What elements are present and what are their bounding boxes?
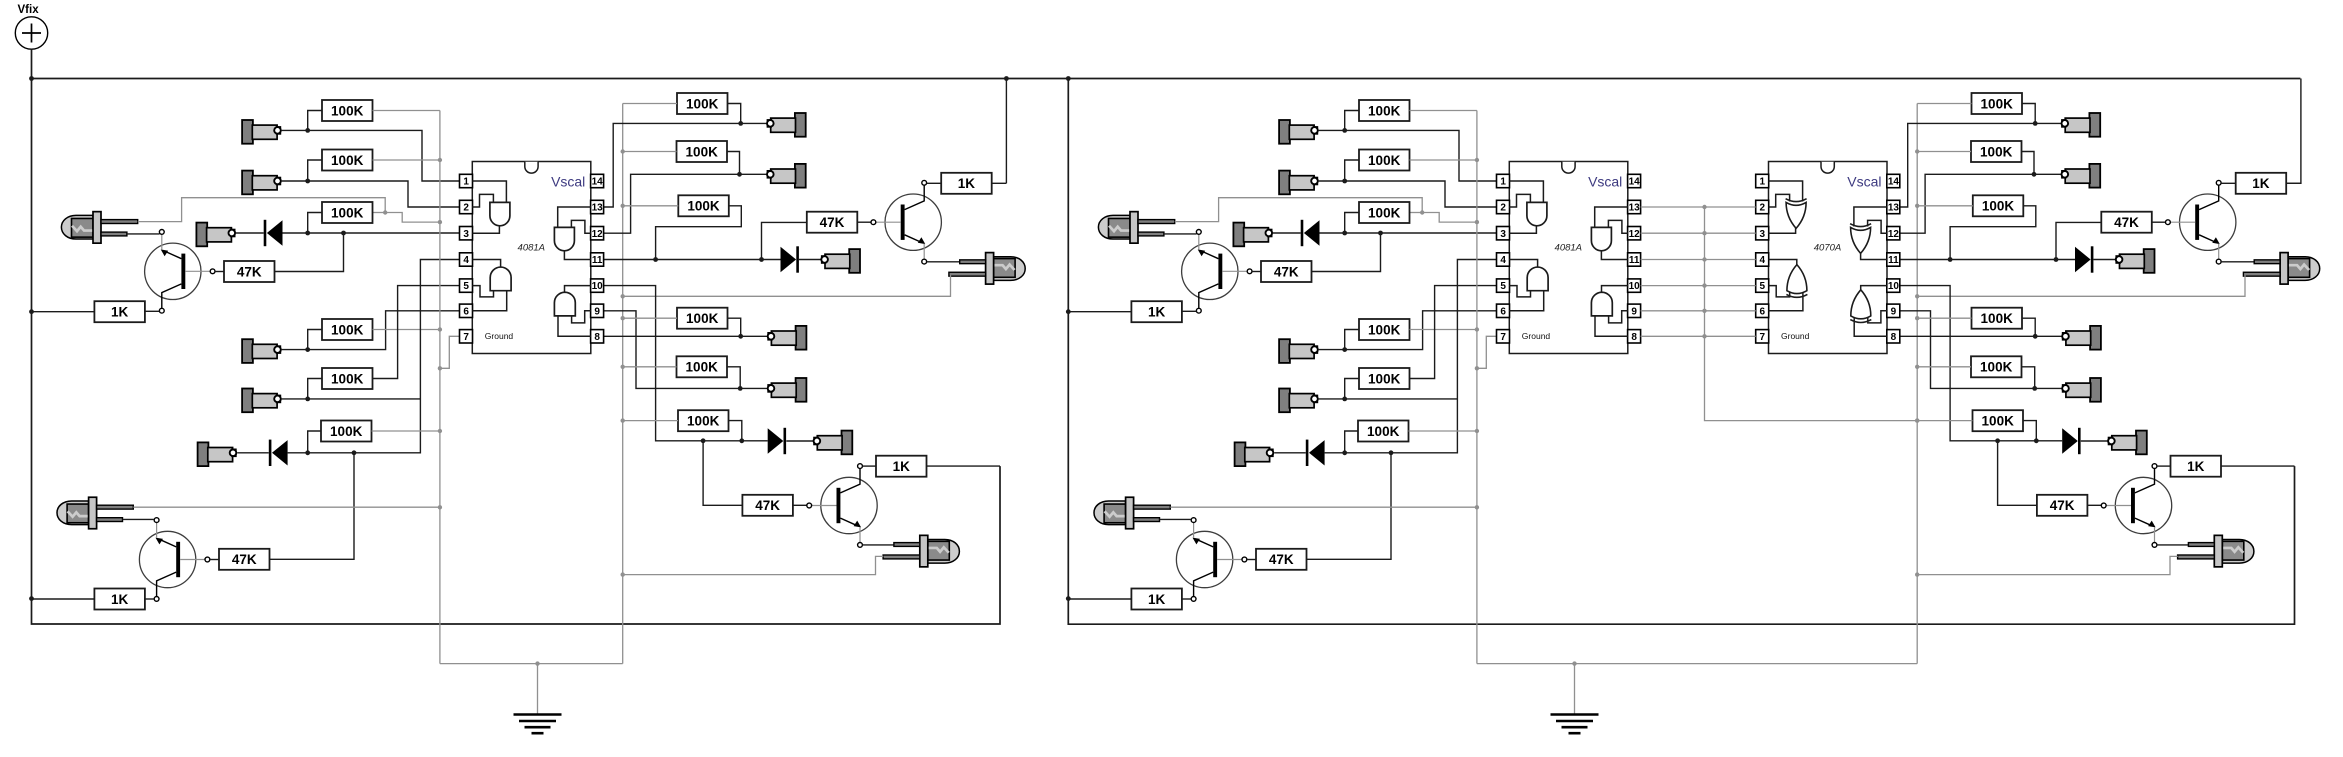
U2 pin 8 xyxy=(1628,330,1641,343)
resistor RR1K2 1K xyxy=(1131,589,1182,610)
wire L1K lower to Q3 collector xyxy=(145,598,154,600)
U1 gate 1 input wires xyxy=(472,181,506,207)
resistor RR3 100K xyxy=(1359,202,1410,223)
junction L ground stem xyxy=(535,661,539,665)
wire LR12 right lead xyxy=(729,421,742,440)
wire LR7 left lead xyxy=(623,103,677,105)
U3 gate 1 input wires xyxy=(1769,181,1803,207)
U3 gate 4 output wire xyxy=(1861,286,1887,293)
sensor LS1 xyxy=(242,120,281,144)
resistor RR1 100K xyxy=(1359,100,1410,121)
U1 pin 12 xyxy=(591,227,604,240)
wire RR1 right lead to ground bus xyxy=(1410,110,1477,112)
wire LLED3 anode to ground bus xyxy=(133,506,440,508)
resistor LR7 100K xyxy=(677,93,728,114)
U2 gate 2 input wires xyxy=(1509,286,1543,311)
wire R sensor5 to pin4 riser xyxy=(1318,398,1457,400)
junction L bus/R4 xyxy=(438,327,442,331)
U3 pin 11 xyxy=(1887,253,1900,266)
svg-text:13: 13 xyxy=(1888,203,1900,214)
wire L1K upper left lead xyxy=(32,311,95,313)
wire RLED4 cathode to ground bus xyxy=(1917,275,2245,297)
U1 gate 2 input wires xyxy=(472,286,506,311)
svg-text:14: 14 xyxy=(1888,177,1900,188)
U3 pin 2 xyxy=(1756,200,1769,213)
sensor RS1 xyxy=(1279,120,1318,144)
junction L sensor5/R5 xyxy=(305,397,310,402)
svg-text:2: 2 xyxy=(463,203,469,214)
wire L D1 to pin3 xyxy=(283,232,460,234)
junction L D4 net/R12 xyxy=(739,438,744,443)
svg-text:2: 2 xyxy=(1500,203,1506,214)
wire LLED2 cathode to ground bus xyxy=(623,556,884,574)
wire R47K to Q2 base xyxy=(2087,504,2101,506)
resistor RR47a 47K xyxy=(1261,261,1312,282)
wire L D3 to sensor9 xyxy=(799,259,821,261)
svg-text:1K: 1K xyxy=(2252,176,2270,191)
junction middle bus row 4 xyxy=(1702,257,1706,261)
junction R pin9 net/R11 xyxy=(2032,386,2037,391)
wire LR2 left lead xyxy=(308,160,322,180)
resistor LR6 100K xyxy=(321,421,372,442)
svg-text:100K: 100K xyxy=(686,311,719,326)
svg-text:1K: 1K xyxy=(958,176,976,191)
junction L D2 net/R6 xyxy=(305,450,310,455)
svg-text:12: 12 xyxy=(1629,229,1641,240)
wire left-block top-right drop xyxy=(1005,79,1007,184)
wire L sensor3 to D1 xyxy=(236,232,264,234)
wire L ground bus B xyxy=(622,104,624,664)
wire RR1 left lead xyxy=(1345,111,1359,130)
U1 pin 4 xyxy=(460,253,473,266)
wire RR10 right lead xyxy=(2022,318,2035,335)
junction L bus/pin7 xyxy=(438,366,442,370)
U1 gate 3 input wires xyxy=(558,207,591,233)
wire LR11 right lead xyxy=(727,367,740,388)
wire R sensor1 to pin1 xyxy=(1318,130,1496,181)
junction R D2 net/47K riser xyxy=(1389,450,1394,455)
junction middle bus row 2 xyxy=(1702,205,1706,209)
junction R busB/R8 xyxy=(1915,149,1919,153)
junction R ground bus/R2 xyxy=(1475,158,1479,162)
wire LR2 right lead xyxy=(373,159,440,161)
sensor LS10 xyxy=(768,326,807,350)
svg-text:Vscal: Vscal xyxy=(1847,174,1881,190)
junction R busB/R12 xyxy=(1915,418,1919,422)
wire RLED1 anode to ground bus xyxy=(1175,198,1423,222)
wire R1K lower to Q3 collector xyxy=(1182,598,1191,600)
resistor LR1K4 1K xyxy=(876,456,927,477)
sensor RS11 xyxy=(2062,378,2101,402)
wire R1K lower left lead xyxy=(1069,598,1132,600)
transistor RQ1 xyxy=(1182,229,1252,313)
wire RQ2T emitter to LED4 xyxy=(2221,261,2254,263)
wire LR12 left lead xyxy=(623,420,678,422)
junction top rail to left-block right 1K xyxy=(1004,76,1009,81)
sensor RS5 xyxy=(1279,389,1318,413)
junction L pin3 net/R3 xyxy=(305,231,310,236)
U1 gate 1 (AND) xyxy=(490,202,510,225)
U3 gate 3 output wire xyxy=(1861,251,1887,260)
U3 pin 7 xyxy=(1756,330,1769,343)
U3 pin 12 xyxy=(1887,227,1900,240)
junction R D4 net/47K drop xyxy=(1995,438,2000,443)
wire inter-IC row 3 xyxy=(1641,232,1756,234)
junction middle bus row 3 xyxy=(1702,231,1706,235)
U2 pin 3 xyxy=(1497,227,1510,240)
svg-text:100K: 100K xyxy=(330,424,363,439)
wire LLED4 cathode to ground bus xyxy=(623,275,951,297)
svg-text:47K: 47K xyxy=(1269,552,1294,567)
wire LR5 right lead to pin5 xyxy=(373,286,460,379)
U3 gate 3 input wires xyxy=(1854,207,1887,233)
wire LR9 right lead to pin11 net xyxy=(656,206,742,259)
svg-text:9: 9 xyxy=(594,306,600,317)
wire RR11 right lead xyxy=(2022,367,2035,388)
diode RD2 xyxy=(1306,440,1325,466)
svg-text:1K: 1K xyxy=(893,459,911,474)
U3 pin 8 xyxy=(1887,330,1900,343)
wire L pin11 net xyxy=(604,259,781,261)
wire Vfix left border and left-block bottom rail xyxy=(32,49,1001,624)
resistor RR8 100K xyxy=(1971,141,2022,162)
wire L47K to Q2 base xyxy=(793,504,807,506)
junction LLED1/R3 gray xyxy=(383,210,387,214)
svg-text:47K: 47K xyxy=(755,498,780,513)
svg-text:4: 4 xyxy=(463,255,469,266)
U3 pin 14 xyxy=(1887,174,1900,187)
svg-text:11: 11 xyxy=(1629,255,1640,266)
wire R pin9 net to sensor11 xyxy=(1900,311,2062,389)
resistor LR5 100K xyxy=(322,368,373,389)
resistor RR47c 47K xyxy=(2101,212,2152,233)
svg-text:100K: 100K xyxy=(687,199,720,214)
sensor LS6 xyxy=(198,442,237,466)
wire LR6 left lead xyxy=(308,431,321,452)
U3 pin 5 xyxy=(1756,279,1769,292)
resistor LR1K3 1K xyxy=(941,173,992,194)
junction R sensor1/100K xyxy=(1342,128,1347,133)
U1 pin 8 xyxy=(591,330,604,343)
junction L ground bus/R2 xyxy=(438,158,442,162)
wire L pin13 to sensor7 xyxy=(604,123,767,207)
svg-text:100K: 100K xyxy=(1368,103,1401,118)
U2 pin 7 xyxy=(1497,330,1510,343)
junction L pin11/R9 xyxy=(653,257,658,262)
U2 gate 3 input wires xyxy=(1595,207,1628,233)
junction L sensor7/R7 xyxy=(738,121,743,126)
resistor LR1K2 1K xyxy=(94,589,144,610)
junction R busB/R11 xyxy=(1915,365,1919,369)
svg-text:11: 11 xyxy=(1888,255,1899,266)
IC U3 4070A body xyxy=(1769,162,1888,354)
sensor LS5 xyxy=(242,389,281,413)
wire R1K right lead to bottom corner xyxy=(2221,465,2295,467)
wire R47K right lead up to pin3 net xyxy=(1312,234,1381,272)
wire R ground bus B xyxy=(1916,104,1918,664)
resistor RR11 100K xyxy=(1971,356,2022,377)
wire LR3 left lead xyxy=(308,213,322,233)
U2 gate 4 (AND) xyxy=(1591,292,1612,316)
resistor RR6 100K xyxy=(1358,421,1409,442)
sensor LS7 xyxy=(767,113,806,137)
wire LQ2T emitter to LED4 xyxy=(927,261,960,263)
wire RR5 left lead xyxy=(1345,379,1359,398)
junction R bus/pin7 xyxy=(1475,366,1479,370)
svg-text:4081A: 4081A xyxy=(1555,243,1582,254)
svg-text:1K: 1K xyxy=(111,592,129,607)
svg-text:6: 6 xyxy=(1760,306,1766,317)
svg-text:100K: 100K xyxy=(1368,371,1401,386)
junction L D2 net/47K riser xyxy=(352,450,357,455)
ground symbol R xyxy=(1551,715,1599,734)
svg-text:100K: 100K xyxy=(686,96,719,111)
junction R pin11/47K xyxy=(2054,257,2059,262)
svg-text:100K: 100K xyxy=(331,153,364,168)
junction L busB/LED4 xyxy=(621,294,625,298)
wire LLED1 anode to ground bus xyxy=(138,198,386,222)
U1 gate 4 output wire xyxy=(565,286,591,293)
wire L D4 to sensor12 xyxy=(786,440,813,442)
wire L1K right lead to bottom corner xyxy=(927,465,1001,467)
svg-text:Ground: Ground xyxy=(1781,331,1810,341)
resistor RR1K1 1K xyxy=(1131,301,1182,322)
junction R bus/LED3 xyxy=(1475,505,1479,509)
wire LR8 left lead xyxy=(623,151,677,153)
wire inter-IC row 2 xyxy=(1641,206,1756,208)
svg-text:12: 12 xyxy=(1888,229,1900,240)
U1 gate 3 (AND) xyxy=(554,227,574,250)
junction R D4 net/R12 xyxy=(2034,438,2039,443)
svg-text:13: 13 xyxy=(1629,203,1641,214)
wire L1K to Q2T collector xyxy=(927,182,942,184)
svg-text:1: 1 xyxy=(463,177,469,188)
wire RR3 right lead xyxy=(1410,212,1423,214)
svg-text:1: 1 xyxy=(1500,177,1506,188)
svg-text:9: 9 xyxy=(1631,306,1637,317)
svg-text:3: 3 xyxy=(1500,229,1506,240)
svg-text:47K: 47K xyxy=(1274,264,1299,279)
wire R47K to Q2T base xyxy=(2152,221,2166,223)
junction middle bus row 5 xyxy=(1702,283,1706,287)
U2 gate 2 (AND) xyxy=(1527,267,1548,291)
U2 gate 4 input wires xyxy=(1595,311,1628,337)
wire RLED3 anode to ground bus xyxy=(1170,506,1477,508)
diode RD1 xyxy=(1301,220,1320,246)
wire RR10 left lead xyxy=(1917,317,1971,319)
junction R busB/LED2 xyxy=(1915,572,1919,576)
wire RR12 right lead xyxy=(2023,421,2036,440)
LED RLED2 xyxy=(2178,535,2254,567)
wire R D2 net riser to pin4 xyxy=(1325,260,1497,453)
junction L bus/LED1 net xyxy=(438,220,442,224)
wire RR2 left lead xyxy=(1345,160,1359,180)
wire L1K upper to Q1 collector xyxy=(145,310,160,312)
wire RR6 left lead xyxy=(1345,431,1358,452)
sensor RS10 xyxy=(2062,326,2101,350)
junction middle bus row 6 xyxy=(1702,309,1706,313)
svg-text:100K: 100K xyxy=(686,144,719,159)
svg-text:5: 5 xyxy=(1760,281,1766,292)
resistor LR12 100K xyxy=(678,410,729,431)
diode RD3 xyxy=(2075,246,2093,272)
wire L ground bus A xyxy=(439,111,441,664)
U1 gate 2 output wire xyxy=(472,260,500,268)
resistor LR1K1 1K xyxy=(94,301,144,322)
svg-text:7: 7 xyxy=(1500,332,1506,343)
resistor RR5 100K xyxy=(1359,368,1410,389)
junction R busB/R9 xyxy=(1915,204,1919,208)
resistor LR47a 47K xyxy=(224,261,275,282)
svg-text:8: 8 xyxy=(1891,332,1897,343)
diode LD1 xyxy=(264,220,283,246)
svg-text:4: 4 xyxy=(1760,255,1766,266)
wire L47K lower to Q3 base xyxy=(210,559,219,561)
junction R sensor5/R5 xyxy=(1342,397,1347,402)
svg-text:6: 6 xyxy=(1500,306,1506,317)
svg-text:100K: 100K xyxy=(1368,205,1401,220)
wire RQ2 emitter to LED2 xyxy=(2157,544,2189,546)
junction R bus/R4 xyxy=(1475,327,1479,331)
svg-text:14: 14 xyxy=(1629,177,1641,188)
junction R bus/LED1 net xyxy=(1475,220,1479,224)
junction right border / 1K upper xyxy=(1066,309,1071,314)
wire RLED1 cathode to Q1 emitter xyxy=(1164,233,1197,235)
wire R D3 to sensor9 xyxy=(2094,259,2116,261)
resistor RR4 100K xyxy=(1359,319,1410,340)
svg-text:47K: 47K xyxy=(2050,498,2075,513)
sensor RS6 xyxy=(1235,442,1274,466)
U2 pin 9 xyxy=(1628,304,1641,317)
U3 gate 3 (XOR) xyxy=(1850,224,1871,227)
U2 pin 4 xyxy=(1497,253,1510,266)
U2 pin 6 xyxy=(1497,304,1510,317)
wire middle ground bus xyxy=(1705,207,1973,421)
wire L sensor4 to pin6 xyxy=(281,311,459,350)
junction L busB/R9 xyxy=(621,204,625,208)
resistor LR47d 47K xyxy=(742,495,793,516)
sensor RS2 xyxy=(1279,171,1318,195)
transistor LQ1 xyxy=(145,229,215,313)
U1 pin 14 xyxy=(591,174,604,187)
svg-text:4: 4 xyxy=(1500,255,1506,266)
svg-text:100K: 100K xyxy=(1980,144,2013,159)
U1 gate 3 output wire xyxy=(564,251,590,260)
junction L busB/R8 xyxy=(621,149,625,153)
wire R1K to Q2 collector xyxy=(2157,465,2171,467)
diode LD4 xyxy=(768,428,786,454)
sensor RS4 xyxy=(1279,339,1318,363)
U1 pin 10 xyxy=(591,279,604,292)
wire right-block top-right drop to 1K xyxy=(2285,79,2301,184)
U1 pin 1 xyxy=(460,174,473,187)
junction L busB/LED2 xyxy=(621,572,625,576)
wire L47K lower-right left lead xyxy=(703,442,742,506)
U2 gate 1 input wires xyxy=(1509,181,1543,207)
junction R sensor2/100K xyxy=(1342,179,1347,184)
wire LLED1 cathode to Q1 emitter xyxy=(127,233,160,235)
svg-text:100K: 100K xyxy=(331,205,364,220)
svg-text:1K: 1K xyxy=(1148,592,1166,607)
sensor LS9 xyxy=(821,249,860,273)
junction Vfix rail / left border xyxy=(29,76,34,81)
svg-text:47K: 47K xyxy=(237,264,262,279)
svg-text:47K: 47K xyxy=(820,215,845,230)
U1 pin 9 xyxy=(591,304,604,317)
wire RR8 left lead xyxy=(1917,151,1971,153)
wire LR9 left lead xyxy=(623,205,679,207)
svg-text:10: 10 xyxy=(592,281,604,292)
wire R47K upper-right left lead xyxy=(2056,222,2101,258)
U1 gate 2 (AND) xyxy=(490,267,511,291)
wire Vfix top rail xyxy=(32,78,2301,80)
wire L gray jog to bus xyxy=(385,213,440,223)
wire R47K lower to Q3 base xyxy=(1247,559,1256,561)
junction R pin11/R9 xyxy=(1948,257,1953,262)
junction middle bus / right bus xyxy=(1915,418,1919,422)
wire inter-IC row 6 xyxy=(1641,310,1756,312)
wire L47K right lead up to pin3 net xyxy=(275,234,344,272)
U3 gate 1 (XOR) xyxy=(1786,199,1807,202)
diode LD2 xyxy=(269,440,288,466)
junction L busB/R11 xyxy=(621,365,625,369)
U2 pin 11 xyxy=(1628,253,1641,266)
wire LR1 right lead to ground bus xyxy=(373,110,440,112)
wire L47K lower right lead riser xyxy=(270,454,355,560)
wire RR2 right lead xyxy=(1410,159,1477,161)
svg-text:7: 7 xyxy=(463,332,469,343)
junction left border / 1K upper xyxy=(29,309,34,314)
wire R sensor6 to D2 xyxy=(1274,452,1306,454)
svg-text:5: 5 xyxy=(1500,281,1506,292)
U3 pin 4 xyxy=(1756,253,1769,266)
svg-text:100K: 100K xyxy=(1981,311,2014,326)
wire R pin10 net to D4 xyxy=(1900,286,2062,441)
sensor LS11 xyxy=(768,378,807,402)
wire RR3 left lead xyxy=(1345,213,1359,233)
junction R busB/LED4 xyxy=(1915,294,1919,298)
wire R pin8 net to sensor10 xyxy=(1900,335,2062,337)
junction R pin3 net/47K xyxy=(1378,231,1383,236)
sensor RS12 xyxy=(2108,431,2147,455)
U1 pin 13 xyxy=(591,200,604,213)
resistor RR1K4 1K xyxy=(2171,456,2222,477)
svg-text:13: 13 xyxy=(592,203,604,214)
transistor RQ2 xyxy=(2101,464,2171,548)
junction L sensor8/R8 xyxy=(737,172,742,177)
svg-text:100K: 100K xyxy=(1368,153,1401,168)
junction L bus/R6 xyxy=(438,429,442,433)
LED RLED1 xyxy=(1098,212,1174,244)
sensor RS8 xyxy=(2062,164,2101,188)
svg-text:100K: 100K xyxy=(687,414,720,429)
transistor LQ2T xyxy=(871,180,941,264)
svg-text:9: 9 xyxy=(1891,306,1897,317)
U2 gate 3 (AND) xyxy=(1591,227,1611,250)
wire L1K lower left lead xyxy=(32,598,95,600)
U3 gate 2 input wires xyxy=(1769,286,1803,311)
wire L47K to Q2T base xyxy=(857,221,871,223)
resistor RR47b 47K xyxy=(1256,549,1307,570)
junction top rail / right-block border xyxy=(1066,76,1071,81)
junction L sensor4/R4 xyxy=(305,347,310,352)
wire R pin7 to ground bus xyxy=(1477,336,1497,368)
wire L sensor1 to pin1 xyxy=(281,130,459,181)
resistor LR2 100K xyxy=(322,150,373,171)
resistor LR4 100K xyxy=(322,319,373,340)
wire R1K upper left lead xyxy=(1069,311,1132,313)
U3 pin 13 xyxy=(1887,200,1900,213)
